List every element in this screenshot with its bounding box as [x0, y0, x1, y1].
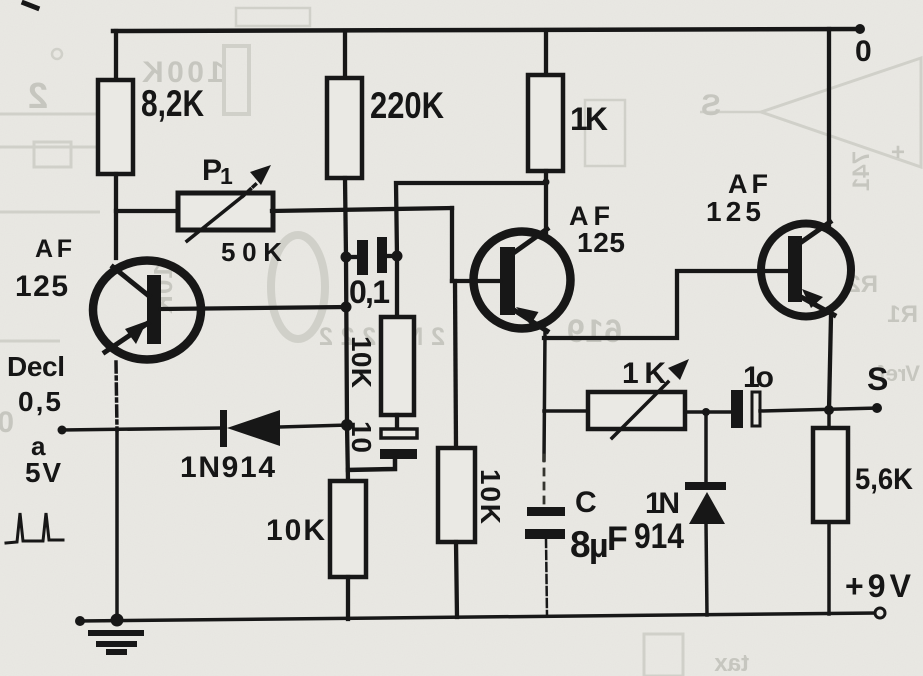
ground [88, 630, 144, 655]
resistor 10K mid [438, 448, 475, 542]
svg-text:µ: µ [589, 527, 609, 565]
svg-text:220K: 220K [370, 85, 444, 126]
wire 8.2K bottom to Q1 collector [114, 174, 118, 258]
svg-text:0: 0 [0, 406, 14, 439]
resistor 5.6K [813, 428, 848, 522]
svg-text:0,5: 0,5 [18, 386, 61, 417]
transistor Q2 AF125 (middle) [474, 229, 571, 331]
svg-text:741: 741 [848, 151, 875, 191]
svg-text:1N: 1N [645, 487, 680, 520]
wire Q1 base lead [161, 307, 346, 309]
resistor 8.2K [98, 80, 133, 174]
svg-text:10K: 10K [475, 469, 506, 524]
wire 220K bottom column [345, 178, 346, 257]
capacitor 10 output [731, 390, 760, 428]
svg-text:0,1: 0,1 [349, 274, 390, 310]
node 1K bottom junction [543, 179, 550, 186]
wire step to Q3 base [544, 271, 788, 338]
wire Q2 base column vertical [450, 208, 454, 281]
node S terminal [872, 403, 882, 413]
label Decl 0,5 a 5V [7, 351, 65, 488]
node diode wire junction [341, 419, 353, 431]
svg-text:1N914: 1N914 [180, 451, 275, 484]
svg-text:0: 0 [855, 35, 872, 68]
svg-text:50K: 50K [221, 237, 282, 267]
ghost box left 1 [0, 114, 118, 147]
wire Q1 emitter dash-dot [116, 362, 117, 430]
transistor Q1 AF125 (left) [93, 261, 201, 360]
svg-text:2: 2 [28, 75, 48, 116]
ghost box top centre [236, 8, 310, 26]
ghost box left 2 [34, 142, 71, 167]
node rail left end [75, 616, 85, 626]
value label 8uF 914 [570, 517, 684, 565]
svg-text:125: 125 [15, 270, 68, 303]
wire 10K mid bottom to rail [456, 542, 457, 617]
ghost resistor mid top [585, 100, 625, 166]
svg-text:8,2K: 8,2K [141, 83, 204, 124]
node cap 0.1 right junction [392, 251, 403, 262]
svg-text:125: 125 [706, 196, 761, 227]
svg-text:tax: tax [714, 650, 749, 676]
svg-text:10K: 10K [346, 336, 377, 388]
ghost line left lower [0, 340, 60, 343]
capacitor 0,1 [346, 237, 397, 275]
svg-text:5V: 5V [25, 457, 61, 488]
node cap 0.1 left junction [341, 252, 352, 263]
svg-text:914: 914 [634, 517, 684, 556]
wire S junction to 5.6K [827, 410, 831, 428]
svg-text:+: + [891, 139, 905, 166]
svg-text:125: 125 [577, 227, 625, 258]
wire Q2 base column to 10K mid [455, 281, 456, 448]
svg-text:619: 619 [567, 313, 622, 349]
ghost line left [0, 211, 100, 214]
capacitor 10 (vertical) [348, 429, 417, 470]
potentiometer P1 50K [178, 165, 273, 241]
node +9V terminal (open) [875, 608, 885, 618]
diode D1 1N914 [220, 410, 280, 447]
wire Q1 emitter to ground [115, 430, 119, 621]
wire 5.6K bottom to rail [827, 522, 831, 614]
svg-text:Decl: Decl [7, 351, 65, 382]
svg-text:8: 8 [570, 524, 591, 565]
wire 1K top [544, 31, 548, 75]
wire 220K top [343, 31, 347, 78]
wire pot right to cap 10 out [685, 410, 731, 414]
ghost circle centre [271, 235, 325, 339]
wire pot right to Q2 base column [272, 208, 452, 211]
ghost ring [52, 49, 62, 59]
svg-text:5,6K: 5,6K [855, 463, 913, 496]
svg-text:1o: 1o [743, 361, 774, 394]
svg-text:C: C [575, 486, 597, 519]
svg-text:R1: R1 [887, 301, 918, 328]
wire Q2 emitter dotted to cap C [543, 455, 546, 505]
wire 10K small bottom to cap 10 [395, 415, 399, 430]
node S junction [824, 405, 834, 415]
resistor 10K lower left [330, 481, 366, 577]
ghost box bottom [644, 634, 683, 676]
wire Q3 collector from rail [827, 29, 831, 228]
wire cap right up and over to 1K bottom [396, 183, 546, 256]
svg-text:+9V: +9V [845, 568, 912, 604]
capacitor C 8uF [525, 507, 565, 616]
resistor 220K [327, 78, 362, 178]
svg-text:S: S [701, 89, 721, 122]
potentiometer 1K [588, 359, 689, 438]
diode D2 1N914 [685, 482, 726, 524]
wire diode to junction [280, 425, 347, 427]
wire pot left lead [116, 209, 178, 213]
node input terminal [58, 426, 67, 435]
wire node column to diode junction [346, 257, 347, 425]
waveform pulse icon [6, 513, 63, 543]
svg-text:F: F [607, 520, 628, 558]
wire bottom rail [79, 613, 876, 621]
svg-text:10K: 10K [266, 514, 325, 547]
wire Q3 emitter down to S [829, 316, 831, 410]
wire Q2 base lead [452, 279, 500, 283]
wire 1K bottom to Q2 collector [544, 171, 548, 233]
wire cap to S [760, 408, 877, 411]
wire diode2 top lead [704, 412, 708, 481]
transistor Q3 AF125 (right) [761, 222, 851, 317]
resistor 1K [528, 75, 563, 171]
wire top supply rail [113, 29, 861, 31]
node ground junction [111, 614, 124, 627]
node diode2 top junction [702, 408, 710, 416]
node Q1 base junction [341, 302, 352, 313]
svg-text:1K: 1K [570, 101, 608, 137]
svg-text:S: S [867, 361, 888, 397]
ghost opamp input line [700, 111, 760, 114]
wire junction down to 10K [347, 425, 348, 481]
wire 8.2K top [114, 31, 118, 81]
node top rail right end [855, 24, 865, 34]
svg-text:1: 1 [220, 163, 233, 189]
wire cap right down to 10K small [395, 256, 399, 318]
mark scanner tick [24, 3, 37, 8]
svg-text:P: P [202, 154, 222, 187]
wire 1K pot left lead [544, 409, 588, 413]
wire input to diode [62, 428, 222, 430]
ghost opamp triangle [761, 58, 921, 167]
svg-text:1K: 1K [622, 357, 666, 390]
wire 10K bottom to rail [346, 577, 350, 619]
wire Q2 emitter down [544, 333, 545, 460]
ghost resistor outline top [224, 46, 249, 114]
resistor 10K small (coupling) [381, 317, 414, 415]
wire diode2 bottom to rail [706, 523, 707, 615]
